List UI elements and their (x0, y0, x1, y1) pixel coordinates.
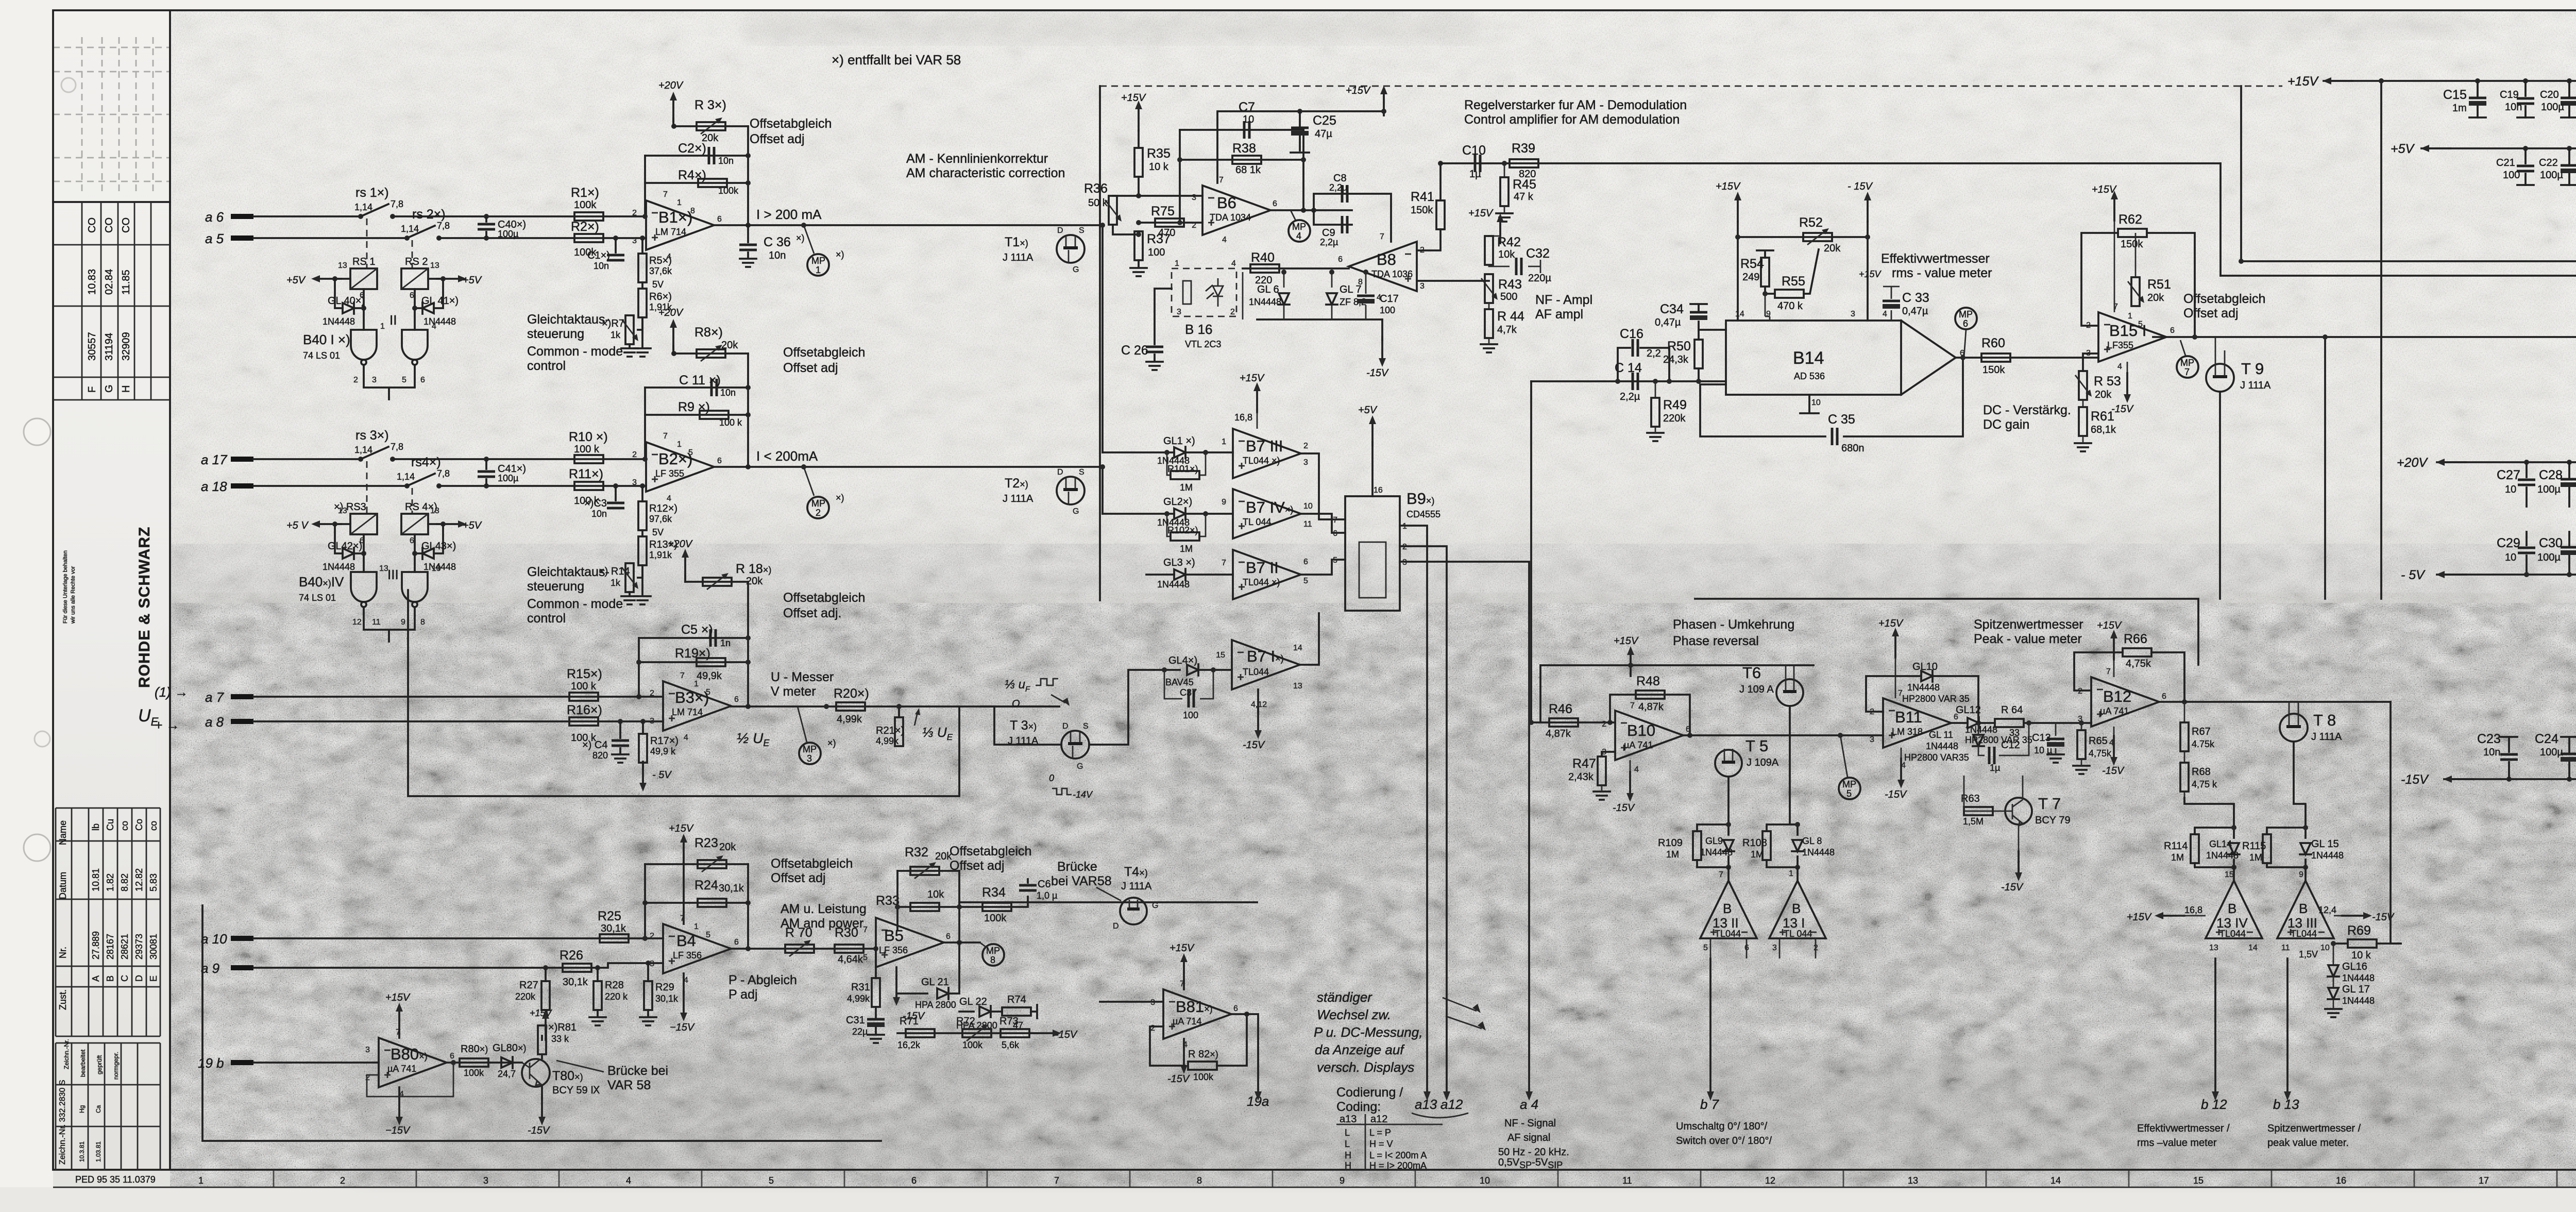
svg-text:6: 6 (734, 938, 739, 947)
svg-text:Brücke: Brücke (1057, 860, 1097, 874)
svg-text:Control amplifier for AM d: Control amplifier for AM demodulation (1464, 112, 1680, 127)
AM section dashed enclosure (1100, 86, 2282, 87)
B1 output wire I>200mA (714, 224, 1103, 226)
+5V feed left lower (334, 523, 350, 525)
svg-text:Datum: Datum (58, 872, 68, 899)
B6 output wire (1270, 209, 1352, 211)
svg-text:4: 4 (1231, 259, 1236, 268)
svg-text:I > 200 mA: I > 200 mA (756, 207, 822, 222)
svg-text:1: 1 (2128, 312, 2132, 321)
resistor R30 (835, 945, 863, 953)
svg-text:8.82: 8.82 (120, 873, 130, 891)
svg-text:+15V: +15V (1859, 269, 1882, 279)
wires clamps to B13 III IV (2234, 867, 2306, 881)
T5 source drop (1727, 777, 1730, 824)
svg-text:4: 4 (667, 252, 671, 261)
svg-text:J 111A: J 111A (1003, 493, 1033, 504)
measuring point MP6 (1964, 330, 1966, 358)
svg-text:R68: R68 (2192, 766, 2211, 778)
svg-text:5: 5 (688, 448, 693, 457)
svg-text:3: 3 (483, 1175, 488, 1186)
resistor R40 (1243, 267, 1349, 270)
svg-text:co: co (148, 821, 159, 831)
svg-text:15: 15 (2225, 870, 2234, 879)
svg-text:L: L (1345, 1127, 1350, 1138)
svg-text:2: 2 (1192, 221, 1196, 230)
capacitor C41 (484, 457, 489, 462)
svg-text:B40 I ×): B40 I ×) (303, 332, 350, 347)
svg-text:3: 3 (807, 753, 812, 764)
svg-text:28621: 28621 (120, 934, 130, 959)
resistor R66 feedback B12 (2074, 652, 2184, 702)
bias rail above B14 (1738, 236, 1868, 238)
transistor T9 (2206, 364, 2234, 392)
svg-text:2: 2 (1150, 1024, 1155, 1033)
svg-text:Common - mode: Common - mode (527, 597, 623, 611)
svg-text:2,2: 2,2 (1647, 348, 1661, 359)
svg-text:×): ×) (827, 738, 836, 748)
pot R3 (674, 125, 748, 127)
svg-text:R35: R35 (1147, 146, 1171, 161)
svg-text:10n: 10n (591, 509, 607, 519)
svg-text:RS 4×): RS 4×) (405, 501, 437, 513)
capacitor C19 (2524, 81, 2527, 117)
svg-text:-15V: -15V (2111, 403, 2134, 415)
svg-text:1µ: 1µ (1469, 169, 1481, 180)
+15V above B12 (2110, 630, 2117, 660)
measuring point MP1 (804, 225, 814, 254)
svg-text:T 7: T 7 (2038, 795, 2061, 813)
op-amp B8 (1349, 242, 1417, 291)
svg-text:TL044 ×): TL044 ×) (1243, 577, 1280, 587)
measuring point MP2 (804, 467, 814, 496)
vertical feeds right section (2240, 86, 2242, 261)
nand gate B40 II (402, 330, 428, 365)
transistor T1 (1057, 235, 1084, 263)
nand gate B40 IV (351, 572, 377, 607)
svg-text:LM 318: LM 318 (1892, 727, 1923, 737)
svg-text:D: D (1057, 226, 1063, 235)
svg-text:geprüft: geprüft (96, 1055, 103, 1074)
svg-text:10: 10 (2505, 552, 2516, 563)
svg-text:GL 22: GL 22 (959, 996, 987, 1007)
wire rs4 to B2 (439, 485, 646, 487)
svg-text:16,2k: 16,2k (897, 1040, 921, 1050)
svg-text:B4: B4 (676, 932, 696, 950)
svg-text:B: B (105, 975, 115, 982)
svg-text:1k: 1k (611, 330, 621, 340)
capacitor C29 (2526, 532, 2528, 575)
svg-text:6: 6 (734, 695, 739, 704)
svg-text:7: 7 (663, 432, 668, 441)
capacitor C30 (2568, 532, 2570, 575)
switch rs4 (404, 483, 410, 489)
svg-text:C6: C6 (1038, 879, 1051, 890)
svg-text:15: 15 (1216, 651, 1225, 660)
svg-text:R8×): R8×) (694, 325, 723, 340)
svg-text:R54: R54 (1740, 257, 1764, 271)
svg-text:B7 II: B7 II (1246, 559, 1279, 577)
svg-text:2,43k: 2,43k (1568, 771, 1594, 783)
svg-text:C 14: C 14 (1615, 361, 1642, 375)
svg-text:D: D (1113, 922, 1119, 931)
svg-text:B7 III: B7 III (1246, 437, 1283, 455)
+15V feed into enclosure (1380, 86, 1387, 115)
svg-text:GL1 ×): GL1 ×) (1163, 435, 1195, 447)
op-amp B13 I (1769, 881, 1826, 938)
svg-text:7: 7 (1219, 176, 1224, 184)
svg-text:-15V: -15V (1885, 789, 1907, 800)
svg-text:10: 10 (1303, 502, 1313, 511)
svg-text:1M: 1M (2171, 852, 2184, 863)
svg-text:4.75k: 4.75k (2192, 739, 2215, 749)
svg-text:control: control (527, 359, 566, 373)
diode GL80 (501, 1057, 513, 1068)
+20V arrow above B2 (672, 346, 674, 353)
svg-text:29373: 29373 (134, 934, 144, 959)
svg-text:+15V: +15V (1468, 208, 1494, 219)
-15V below T7 (2018, 824, 2020, 854)
svg-text:C16: C16 (1620, 327, 1643, 341)
svg-text:5V: 5V (652, 279, 664, 290)
svg-text:R69: R69 (2347, 923, 2371, 938)
svg-text:4,99k: 4,99k (837, 714, 862, 725)
svg-text:R27: R27 (519, 980, 538, 991)
svg-text:6: 6 (1303, 558, 1308, 566)
resistor R65 (2079, 720, 2084, 726)
svg-text:9: 9 (1340, 1175, 1345, 1186)
svg-text:7: 7 (1222, 559, 1226, 567)
svg-text:37,6k: 37,6k (649, 266, 672, 276)
ground below R7 (630, 317, 642, 347)
svg-text:C1×): C1×) (587, 250, 610, 261)
decoder B9 (1345, 496, 1400, 611)
svg-text:97,6k: 97,6k (649, 514, 672, 524)
svg-text:GL 17: GL 17 (2342, 984, 2370, 995)
svg-text:R19×): R19×) (675, 646, 710, 661)
resistor R71 (906, 1029, 935, 1037)
svg-text:10 µ: 10 µ (2034, 745, 2052, 755)
B14 output wire (1956, 357, 2098, 359)
svg-text:4,75k: 4,75k (2126, 658, 2151, 669)
-15V below B8 rail (1381, 319, 1383, 340)
B5 output wire (944, 941, 980, 944)
T6 source drop (1790, 706, 1798, 824)
svg-text:5: 5 (706, 931, 710, 939)
svg-text:100k: 100k (962, 1040, 983, 1050)
pot R23 (645, 863, 748, 865)
svg-text:R75: R75 (1151, 204, 1175, 218)
svg-text:6: 6 (717, 215, 722, 224)
svg-text:R48: R48 (1636, 674, 1660, 688)
svg-text:1,14: 1,14 (401, 224, 419, 234)
svg-text:GL 11: GL 11 (1929, 730, 1953, 740)
resistor R19 (B3 fb) (639, 661, 748, 663)
svg-text:6: 6 (2162, 692, 2166, 701)
B6 feedback verticals (1180, 130, 1303, 223)
svg-text:4,64k: 4,64k (838, 954, 863, 965)
-15V supply B13 right (2334, 915, 2349, 917)
svg-text:R29: R29 (655, 982, 674, 993)
svg-text:CD4555: CD4555 (1406, 509, 1440, 519)
svg-text:bearbeitet: bearbeitet (79, 1049, 87, 1077)
svg-text:1N4448: 1N4448 (2342, 996, 2375, 1006)
svg-text:GL12: GL12 (1956, 704, 1981, 716)
svg-text:C: C (120, 975, 130, 982)
measuring point MP5 (1840, 735, 1848, 777)
op-amp B11 (1883, 698, 1951, 748)
diodes GL16 GL17 (2333, 944, 2334, 965)
wire a5 to switch rs2 (253, 237, 407, 239)
svg-text:20k: 20k (719, 841, 736, 853)
pot R14 (638, 565, 642, 578)
ground below R14 (630, 565, 642, 595)
svg-text:Phasen - Umkehrung: Phasen - Umkehrung (1673, 617, 1794, 632)
diode GL40 (335, 279, 343, 308)
svg-text:5: 5 (2138, 320, 2143, 329)
B10 output row (1683, 734, 1883, 736)
capacitor C34 (1690, 304, 1707, 330)
svg-text:normgepr.: normgepr. (112, 1052, 120, 1080)
svg-text:2: 2 (340, 1175, 345, 1186)
-15V below B81 (1183, 1039, 1185, 1047)
svg-text:1: 1 (198, 1175, 204, 1186)
svg-text:0,47µ: 0,47µ (1902, 306, 1928, 317)
resistor R67 (2184, 702, 2185, 722)
pin10 ground (1808, 395, 1810, 412)
svg-text:10n: 10n (718, 156, 734, 166)
transistor T6 (1776, 679, 1803, 706)
svg-text:6: 6 (450, 1052, 454, 1060)
svg-text:TL044: TL044 (1715, 929, 1741, 939)
pot R18 (B3 offset) (685, 581, 748, 583)
svg-text:Zust.: Zust. (58, 989, 68, 1010)
svg-text:C10: C10 (1462, 143, 1486, 158)
svg-text:+15V: +15V (2127, 912, 2152, 923)
resistor R109 / diode GL9 clamp (1697, 824, 1728, 867)
svg-text:G: G (1073, 265, 1079, 274)
svg-text:1,5V: 1,5V (2299, 949, 2318, 959)
net b12 drop (2214, 958, 2216, 1098)
svg-text:5: 5 (1333, 556, 1337, 565)
pot R7 (638, 317, 642, 330)
svg-text:×) entffallt bei VAR 58: ×) entffallt bei VAR 58 (832, 52, 961, 68)
capacitor C12 (1978, 723, 2029, 755)
svg-text:10n: 10n (2483, 747, 2500, 758)
op-amp B15 (2098, 312, 2166, 362)
svg-text:Offset adj: Offset adj (771, 871, 826, 885)
svg-text:6: 6 (911, 1175, 917, 1186)
diode GL22 + resistor R74 (959, 1011, 974, 1013)
handwritten service note (1314, 989, 1422, 1075)
svg-text:G: G (1077, 762, 1083, 771)
svg-text:C15: C15 (2443, 88, 2467, 102)
svg-text:rms - value meter: rms - value meter (1892, 266, 1992, 280)
wire B12 output down to R69 (2391, 702, 2401, 944)
svg-text:1,14: 1,14 (354, 445, 372, 455)
resistor R15 (569, 693, 598, 701)
resistor R2 (574, 234, 603, 242)
svg-text:100k: 100k (574, 199, 597, 211)
resistor R38 (1180, 159, 1303, 161)
svg-text:-15V: -15V (1243, 739, 1265, 751)
resistor R115 / diode GL15 clamp (2267, 828, 2306, 867)
svg-text:- 5V: - 5V (2401, 568, 2426, 582)
wire a9 to B4 (253, 963, 663, 968)
transistor T2 (1057, 477, 1084, 504)
wire 19b to B80 (253, 1062, 379, 1064)
svg-text:5V: 5V (652, 527, 664, 537)
svg-text:C31: C31 (846, 1015, 865, 1026)
pot R70 (785, 945, 814, 953)
svg-text:MP: MP (1959, 309, 1973, 319)
svg-text:10n: 10n (594, 261, 609, 271)
svg-text:R15×): R15×) (567, 667, 602, 681)
net a13 a12 vertical drops (1427, 613, 1447, 1098)
svg-text:L = P: L = P (1369, 1127, 1391, 1138)
svg-text:×) RS3: ×) RS3 (334, 501, 366, 513)
capacitor C22 (2568, 148, 2570, 185)
svg-text:9: 9 (2299, 870, 2303, 879)
svg-text:R65: R65 (2089, 735, 2108, 747)
svg-text:R31: R31 (851, 982, 870, 993)
capacitor C32 (1489, 265, 1510, 266)
svg-text:+15V: +15V (2097, 620, 2122, 631)
svg-text:S: S (1079, 226, 1084, 235)
svg-text:P - Abgleich: P - Abgleich (728, 973, 797, 987)
svg-text:100µ: 100µ (2540, 747, 2563, 758)
svg-text:×)C3: ×)C3 (584, 498, 607, 509)
+15V arrow B6 bias (1135, 100, 1142, 130)
svg-text:R80×): R80×) (461, 1043, 488, 1055)
resistor R114 / diode GL14 clamp (2195, 828, 2234, 867)
svg-text:BAV45: BAV45 (1165, 677, 1194, 687)
svg-text:MP: MP (811, 256, 825, 266)
resistor R63 (1964, 811, 2012, 812)
capacitor C33 (1883, 287, 1900, 321)
svg-text:R60: R60 (1981, 336, 2005, 350)
svg-text:C30: C30 (2539, 536, 2563, 550)
svg-text:CO: CO (104, 217, 115, 233)
svg-text:680n: 680n (1841, 443, 1865, 454)
op-amp B6 (1202, 186, 1270, 235)
svg-text:a 18: a 18 (201, 479, 227, 494)
svg-text:C 33: C 33 (1902, 291, 1929, 305)
svg-text:D: D (1057, 468, 1063, 477)
connector a17 (231, 457, 253, 462)
svg-text:100µ: 100µ (498, 473, 518, 483)
svg-text:HPA 2800: HPA 2800 (915, 1000, 956, 1010)
capacitor C2 (645, 155, 748, 157)
B2 feedback net (645, 353, 748, 467)
nand gate B40 I (351, 330, 377, 365)
+15V above B80 (398, 1030, 400, 1038)
op-amp B2 (646, 442, 714, 492)
capacitor C35 feedback (1700, 358, 1963, 436)
svg-text:+5V: +5V (463, 275, 482, 286)
svg-text:Offset adj: Offset adj (2183, 306, 2239, 321)
wire a17 to rs3 (253, 458, 361, 460)
svg-text:3: 3 (1303, 458, 1308, 467)
svg-text:J 109A: J 109A (1747, 757, 1779, 768)
svg-text:1µ: 1µ (1990, 763, 2000, 773)
+15V supply B13 left (2155, 912, 2184, 919)
svg-text:GL10: GL10 (1912, 661, 1938, 672)
svg-text:GL9: GL9 (1705, 836, 1723, 846)
svg-text:TL044: TL044 (2219, 929, 2246, 939)
svg-text:R115: R115 (2242, 840, 2266, 852)
svg-text:R102×): R102×) (1167, 525, 1198, 535)
-15V feed B14 (1864, 192, 1871, 222)
svg-text:1N4448: 1N4448 (2342, 973, 2375, 983)
svg-text:versch. Displays: versch. Displays (1317, 1059, 1414, 1075)
svg-text:LF 356: LF 356 (673, 950, 702, 961)
resistor R26 (563, 964, 591, 972)
svg-text:b 13: b 13 (2273, 1097, 2299, 1112)
svg-text:30,1k: 30,1k (601, 923, 626, 934)
svg-text:10k: 10k (1498, 249, 1515, 260)
capacitor C21 (2524, 148, 2527, 185)
transistor T5 (1715, 750, 1742, 777)
resistor R17 (640, 719, 646, 724)
svg-text:10n: 10n (720, 388, 736, 398)
svg-text:100k: 100k (1193, 1072, 1214, 1082)
svg-text:R34: R34 (982, 885, 1006, 900)
svg-text:R 70: R 70 (785, 925, 812, 940)
svg-text:AM - Kennlinienkorrektur: AM - Kennlinienkorrektur (906, 151, 1048, 166)
capacitor C31 (875, 1007, 877, 1017)
svg-text:1: 1 (694, 922, 699, 931)
-15V below B4 (683, 973, 685, 995)
svg-text:R10 ×): R10 ×) (569, 430, 608, 444)
+5V feed right lower (428, 523, 444, 525)
svg-text:20k: 20k (2095, 389, 2112, 400)
svg-text:R9 ×): R9 ×) (678, 400, 710, 414)
svg-text:+15V: +15V (1240, 373, 1265, 384)
svg-text:C 36: C 36 (764, 235, 791, 249)
svg-text:R50: R50 (1667, 339, 1691, 353)
-15V below T80 emitter (541, 1086, 543, 1099)
svg-text:B6: B6 (1217, 194, 1236, 212)
svg-text:P adj: P adj (728, 987, 758, 1002)
B8 pin2 wire to R41 (1417, 229, 1440, 250)
svg-text:4: 4 (432, 322, 436, 331)
switch rs2 (404, 235, 410, 241)
svg-text:B12: B12 (2103, 687, 2131, 705)
-15V below B80 (398, 1087, 400, 1099)
svg-text:4: 4 (667, 494, 671, 503)
svg-text:a 6: a 6 (205, 209, 224, 225)
B4 feedback net (645, 864, 748, 949)
svg-text:6: 6 (420, 376, 425, 384)
svg-text:MP: MP (811, 498, 825, 509)
svg-text:6: 6 (410, 536, 414, 545)
svg-text:- 15V: - 15V (1848, 181, 1873, 192)
svg-text:+15V: +15V (669, 823, 694, 834)
svg-text:10.3.81: 10.3.81 (78, 1141, 86, 1162)
-15V below B7I (1257, 689, 1259, 712)
connector 19b (231, 1060, 253, 1065)
svg-text:I < 200mA: I < 200mA (756, 448, 818, 464)
svg-text:a 9: a 9 (201, 961, 219, 976)
svg-text:20k: 20k (2147, 292, 2164, 304)
svg-text:R109: R109 (1658, 837, 1683, 849)
svg-text:0,47µ: 0,47µ (1655, 317, 1681, 328)
svg-text:AM characteristic correction: AM characteristic correction (906, 166, 1065, 180)
resistor R25 (600, 934, 629, 942)
+15V rail above B6 (1217, 111, 1384, 183)
-15V below B15 (2127, 362, 2128, 376)
